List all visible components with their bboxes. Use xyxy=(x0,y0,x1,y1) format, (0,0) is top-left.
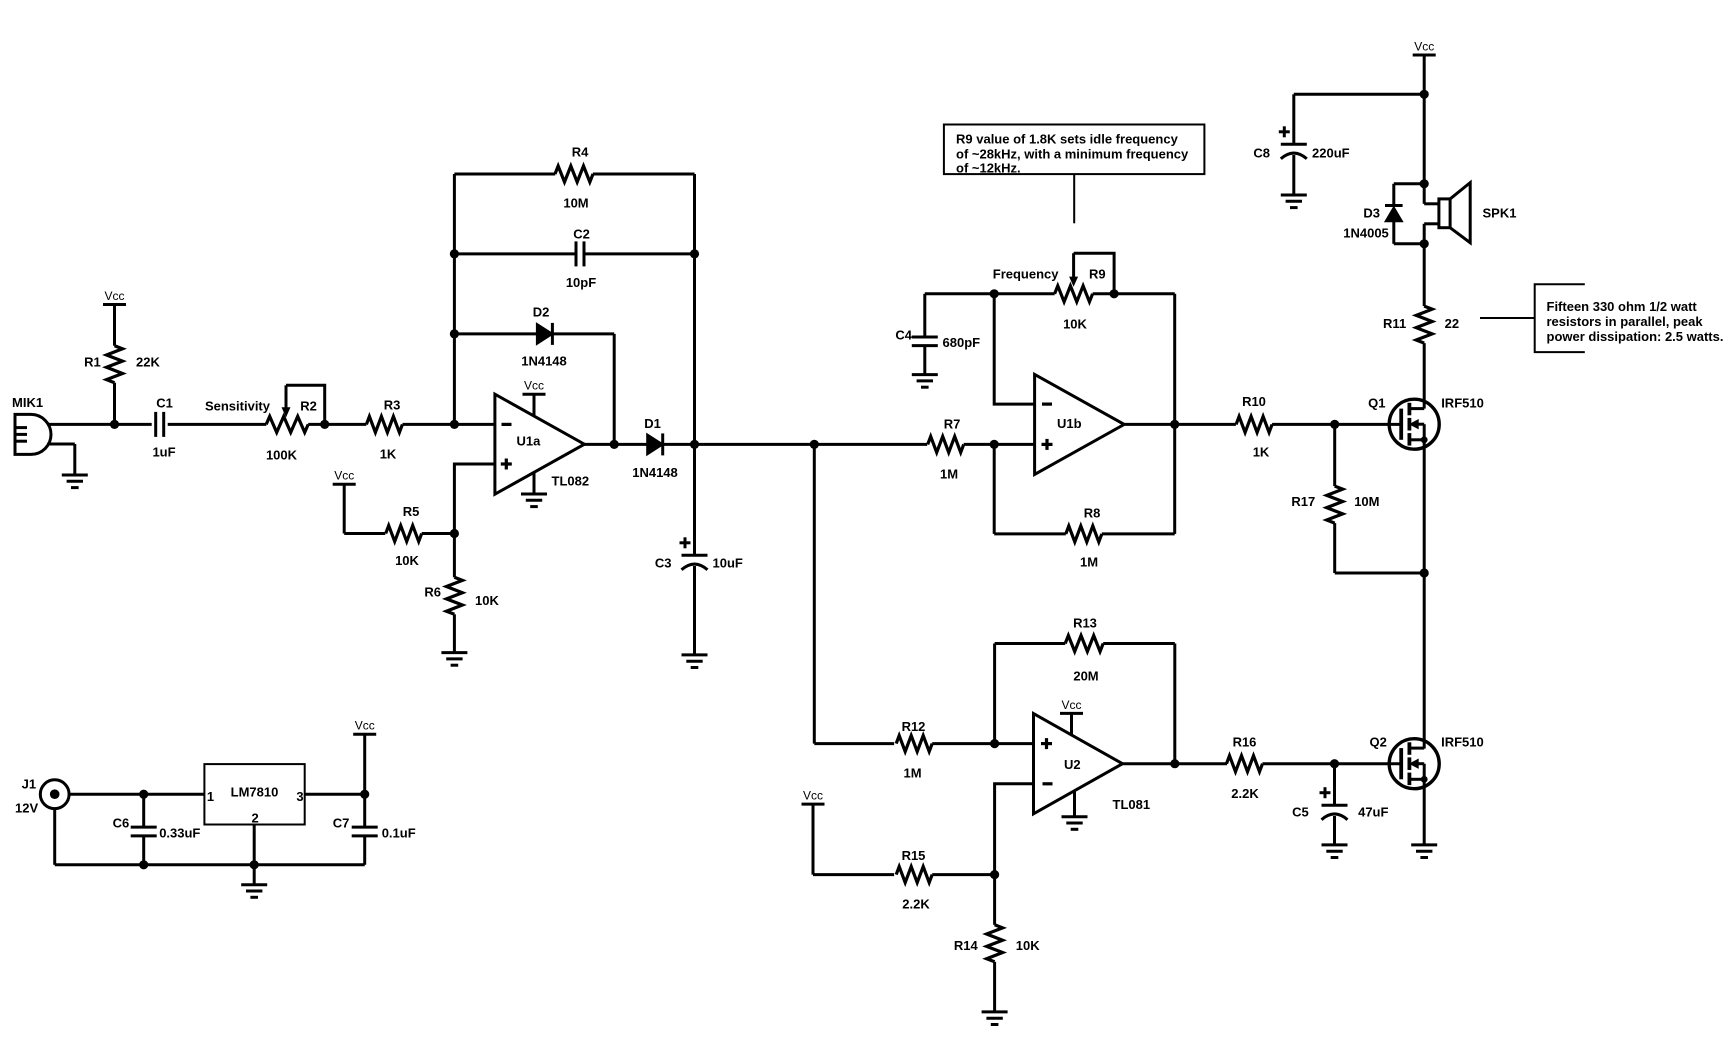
svg-text:Fifteen 330 ohm 1/2 watt: Fifteen 330 ohm 1/2 watt xyxy=(1547,299,1698,314)
svg-text:Q1: Q1 xyxy=(1368,396,1385,411)
svg-text:1N4005: 1N4005 xyxy=(1343,226,1389,241)
svg-text:IRF510: IRF510 xyxy=(1441,735,1484,750)
svg-text:2: 2 xyxy=(251,811,258,826)
svg-text:0.33uF: 0.33uF xyxy=(159,826,200,841)
svg-text:10K: 10K xyxy=(395,553,419,568)
svg-text:0.1uF: 0.1uF xyxy=(382,826,416,841)
svg-text:D1: D1 xyxy=(644,416,661,431)
svg-text:R4: R4 xyxy=(572,145,589,160)
svg-text:1K: 1K xyxy=(1253,445,1270,460)
svg-text:10K: 10K xyxy=(475,593,499,608)
svg-text:10K: 10K xyxy=(1016,938,1040,953)
svg-text:Vcc: Vcc xyxy=(355,719,375,733)
svg-text:Vcc: Vcc xyxy=(803,789,823,803)
svg-text:MIK1: MIK1 xyxy=(12,395,43,410)
svg-text:22K: 22K xyxy=(136,355,160,370)
svg-text:C2: C2 xyxy=(573,227,590,242)
svg-text:Frequency: Frequency xyxy=(993,267,1060,282)
svg-text:C3: C3 xyxy=(655,556,672,571)
svg-text:20M: 20M xyxy=(1073,669,1098,684)
svg-text:1K: 1K xyxy=(380,447,397,462)
svg-text:1uF: 1uF xyxy=(152,445,175,460)
svg-text:2.2K: 2.2K xyxy=(902,897,930,912)
svg-text:1: 1 xyxy=(207,789,214,804)
svg-text:of ~12kHz.: of ~12kHz. xyxy=(956,160,1021,175)
svg-text:C5: C5 xyxy=(1292,805,1309,820)
svg-text:U1b: U1b xyxy=(1057,416,1082,431)
svg-text:R10: R10 xyxy=(1242,394,1266,409)
svg-text:1M: 1M xyxy=(940,467,958,482)
svg-text:R5: R5 xyxy=(403,504,420,519)
svg-text:2.2K: 2.2K xyxy=(1231,786,1259,801)
svg-text:47uF: 47uF xyxy=(1358,805,1388,820)
svg-text:R3: R3 xyxy=(384,398,401,413)
svg-text:10pF: 10pF xyxy=(566,275,596,290)
svg-text:R15: R15 xyxy=(902,848,926,863)
svg-text:C4: C4 xyxy=(895,328,912,343)
svg-text:R7: R7 xyxy=(944,417,961,432)
svg-text:Vcc: Vcc xyxy=(104,289,124,303)
svg-text:SPK1: SPK1 xyxy=(1483,206,1517,221)
svg-text:100K: 100K xyxy=(266,448,298,463)
svg-text:D3: D3 xyxy=(1363,206,1380,221)
svg-text:1M: 1M xyxy=(903,766,921,781)
svg-text:R6: R6 xyxy=(424,584,441,599)
svg-text:R17: R17 xyxy=(1291,494,1315,509)
svg-text:R12: R12 xyxy=(902,719,926,734)
svg-text:C7: C7 xyxy=(333,816,350,831)
svg-text:Vcc: Vcc xyxy=(524,379,544,393)
svg-text:Vcc: Vcc xyxy=(1061,698,1081,712)
svg-text:1M: 1M xyxy=(1080,555,1098,570)
svg-text:C6: C6 xyxy=(113,816,130,831)
svg-text:R2: R2 xyxy=(300,399,317,414)
svg-text:Vcc: Vcc xyxy=(334,469,354,483)
svg-text:U1a: U1a xyxy=(517,434,542,449)
svg-text:Q2: Q2 xyxy=(1370,735,1387,750)
svg-text:D2: D2 xyxy=(533,305,550,320)
svg-text:Vcc: Vcc xyxy=(1414,40,1434,54)
svg-text:C1: C1 xyxy=(156,396,173,411)
svg-text:R13: R13 xyxy=(1073,616,1097,631)
svg-text:TL081: TL081 xyxy=(1113,797,1151,812)
svg-text:680pF: 680pF xyxy=(943,335,981,350)
svg-text:IRF510: IRF510 xyxy=(1441,396,1484,411)
svg-text:U2: U2 xyxy=(1064,757,1081,772)
svg-text:power dissipation: 2.5 watts.: power dissipation: 2.5 watts. xyxy=(1547,329,1724,344)
svg-text:C8: C8 xyxy=(1253,146,1270,161)
svg-text:resistors in parallel, peak: resistors in parallel, peak xyxy=(1547,314,1704,329)
svg-text:LM7810: LM7810 xyxy=(231,785,279,800)
svg-text:1N4148: 1N4148 xyxy=(521,354,567,369)
svg-text:10K: 10K xyxy=(1063,317,1087,332)
svg-text:220uF: 220uF xyxy=(1312,146,1350,161)
svg-text:1N4148: 1N4148 xyxy=(632,465,678,480)
svg-text:TL082: TL082 xyxy=(552,474,590,489)
svg-text:R14: R14 xyxy=(954,938,979,953)
svg-text:Sensitivity: Sensitivity xyxy=(205,399,271,414)
svg-text:R1: R1 xyxy=(84,355,101,370)
svg-text:R16: R16 xyxy=(1233,735,1257,750)
svg-text:R9: R9 xyxy=(1089,267,1106,282)
svg-text:3: 3 xyxy=(296,789,303,804)
svg-text:10uF: 10uF xyxy=(713,556,743,571)
svg-text:R9 value of 1.8K sets idle fre: R9 value of 1.8K sets idle frequency xyxy=(956,131,1179,146)
svg-text:R11: R11 xyxy=(1383,316,1406,331)
svg-text:R8: R8 xyxy=(1084,506,1101,521)
svg-text:10M: 10M xyxy=(1354,494,1379,509)
svg-text:J1: J1 xyxy=(22,777,36,792)
svg-text:10M: 10M xyxy=(563,196,588,211)
svg-text:12V: 12V xyxy=(15,801,38,816)
svg-text:22: 22 xyxy=(1445,316,1459,331)
